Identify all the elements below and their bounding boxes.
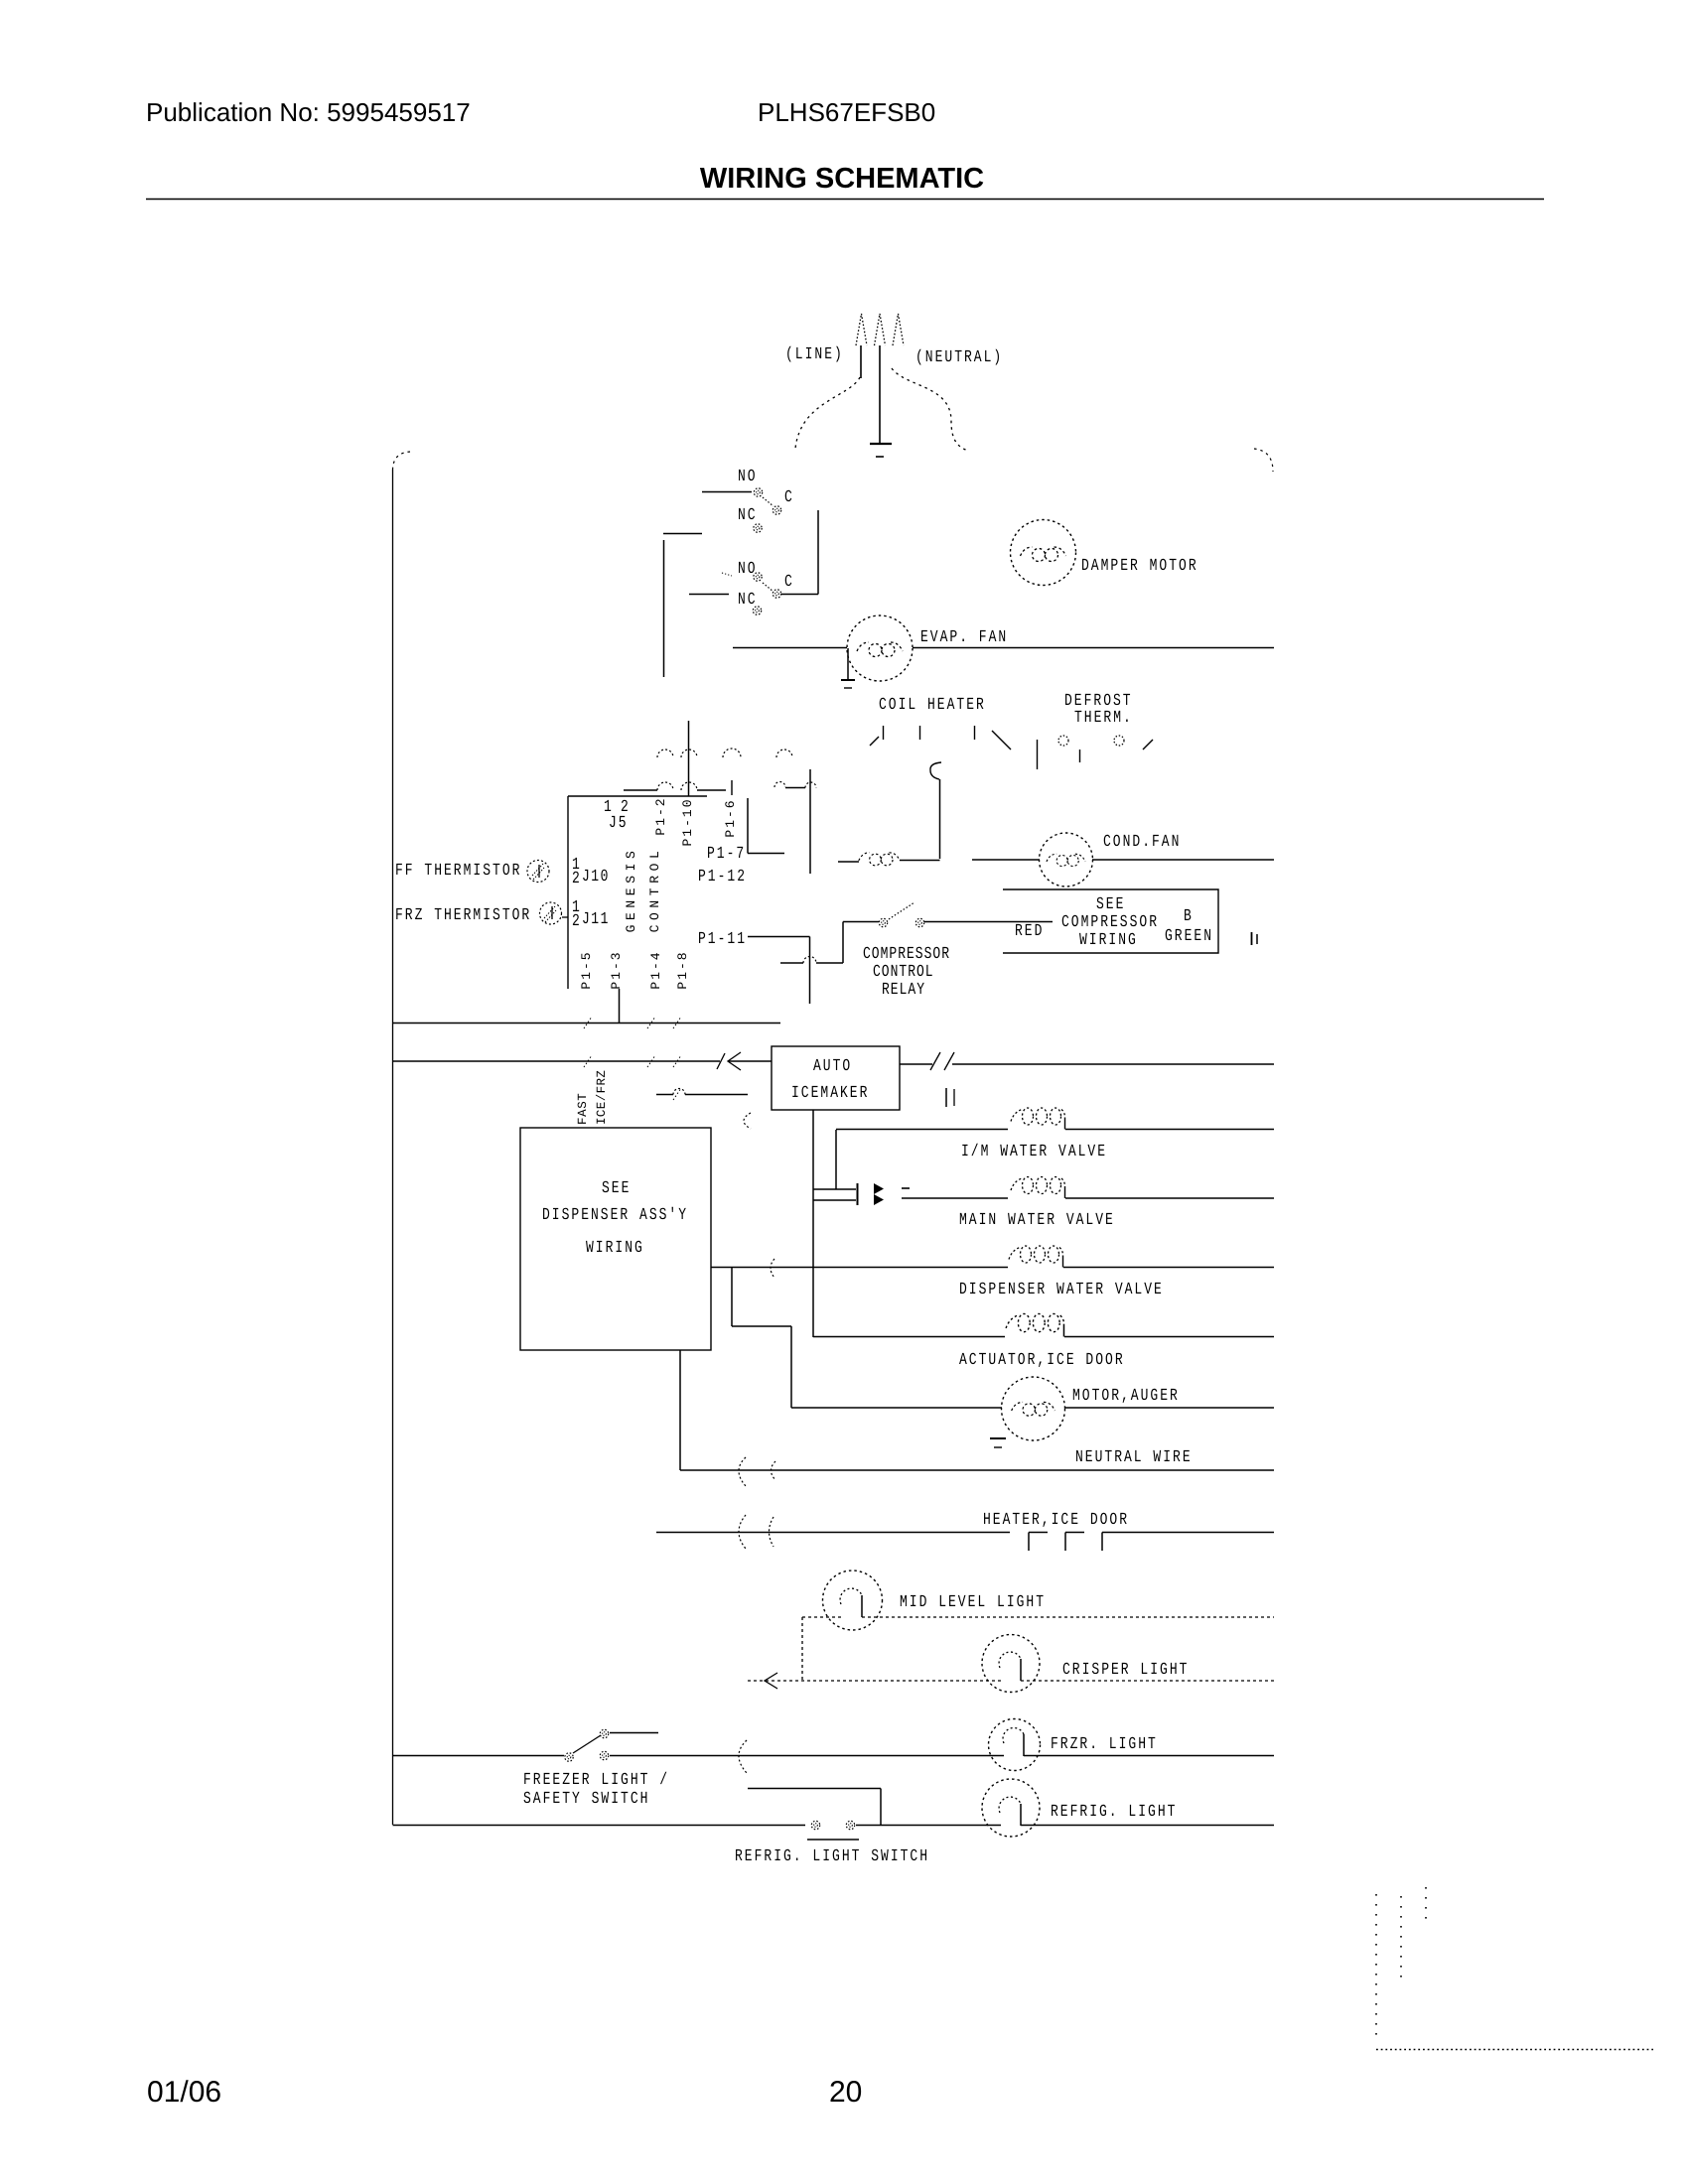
wire cond-fan row mid bbox=[900, 860, 940, 862]
wire down to genesis top bbox=[688, 721, 690, 796]
wire P1-11 vertical bbox=[809, 937, 811, 1005]
defrost therm terminal B bbox=[1114, 736, 1124, 746]
bus line A bbox=[393, 1023, 781, 1024]
arc mark frzr row bbox=[739, 1740, 747, 1773]
coil heater mark tick3 bbox=[974, 726, 976, 740]
FF thermistor body bbox=[527, 861, 549, 883]
auger motor circle bbox=[1002, 1377, 1065, 1440]
wire P1-3 drop bbox=[619, 989, 621, 1024]
coil heater mark slash1 bbox=[870, 737, 879, 746]
wire crossing mark x682 lineC bbox=[673, 1088, 681, 1100]
damper motor circle bbox=[1011, 520, 1076, 586]
relay arm (dotted) bbox=[889, 902, 914, 919]
genesis box left edge bbox=[567, 796, 569, 989]
wire mid level right (dashed) bbox=[862, 1616, 1274, 1618]
svg-text:J11: J11 bbox=[582, 909, 610, 929]
svg-text:COMPRESSOR: COMPRESSOR bbox=[863, 944, 950, 964]
title rule bbox=[146, 199, 1544, 201]
icemaker break slash1 bbox=[930, 1052, 940, 1070]
svg-text:SEE: SEE bbox=[602, 1178, 631, 1198]
defrost therm terminal A bbox=[1058, 736, 1068, 746]
board connector arc row1 #4 bbox=[776, 750, 792, 757]
diode double anode bbox=[874, 1183, 884, 1205]
FF thermistor hatch2 bbox=[533, 868, 544, 880]
FRZ thermistor lead bbox=[562, 916, 568, 918]
wire crossing mark x592 y1030 bbox=[584, 1017, 592, 1028]
evap fan ground drop bbox=[847, 648, 849, 679]
wire from NC area down bbox=[663, 540, 665, 677]
svg-text:NC: NC bbox=[738, 590, 758, 610]
wire dispenser valve row bbox=[711, 1267, 1008, 1269]
wire main valve right bbox=[1065, 1197, 1274, 1199]
break mark bar1 bbox=[1251, 932, 1253, 945]
wire ground-prong lead bbox=[879, 345, 881, 443]
switch1 C terminal bbox=[773, 506, 780, 514]
freezer light filament bbox=[1003, 1728, 1024, 1756]
wire frzr row left bbox=[393, 1755, 565, 1757]
svg-text:GENESIS: GENESIS bbox=[624, 847, 638, 933]
wire actuator row bbox=[813, 1336, 1005, 1338]
wire evap fan right bbox=[913, 647, 1274, 649]
defrost heater lead bbox=[1037, 740, 1039, 769]
wire actuator right bbox=[1064, 1336, 1274, 1338]
wire mid level left (dashed) bbox=[802, 1616, 842, 1618]
wire crisper right (dashed) bbox=[1021, 1680, 1274, 1682]
bus line B left bbox=[393, 1060, 721, 1062]
wire row2 mid bbox=[697, 789, 726, 791]
wire heater ice door row bbox=[656, 1532, 1010, 1534]
wire P1-7 stub bbox=[748, 853, 784, 855]
svg-text:ICE/FRZ: ICE/FRZ bbox=[595, 1070, 609, 1125]
ice door heater drop3 bbox=[1101, 1533, 1103, 1552]
svg-text:P1-7: P1-7 bbox=[707, 844, 746, 864]
svg-text:DISPENSER WATER VALVE: DISPENSER WATER VALVE bbox=[959, 1280, 1164, 1299]
plug prong right bbox=[893, 314, 904, 345]
svg-text:REFRIG. LIGHT: REFRIG. LIGHT bbox=[1051, 1802, 1177, 1822]
break mark bar2 bbox=[1256, 934, 1258, 944]
wire I/M valve row bbox=[836, 1129, 1008, 1131]
svg-text:SAFETY SWITCH: SAFETY SWITCH bbox=[523, 1789, 649, 1809]
cap mark bar1 bbox=[945, 1088, 947, 1107]
switch2 NO terminal bbox=[754, 573, 762, 581]
svg-text:I/M WATER VALVE: I/M WATER VALVE bbox=[961, 1142, 1107, 1161]
wire crossing mark x656 y1069 bbox=[647, 1055, 655, 1067]
defrost therm slash bbox=[1143, 740, 1153, 750]
ice door heater seg3 bbox=[1102, 1532, 1274, 1534]
relay NO terminal bbox=[915, 918, 923, 926]
svg-text:SEE: SEE bbox=[1096, 894, 1125, 914]
svg-text:AUTO: AUTO bbox=[813, 1056, 852, 1076]
wire auger row bbox=[791, 1407, 1002, 1409]
wire hop relay over P1-11 bbox=[803, 957, 816, 964]
wire relay riser bbox=[842, 922, 844, 964]
auger ground tick bbox=[994, 1446, 1002, 1448]
freezer switch arm bbox=[573, 1735, 601, 1753]
registration mark dotted column 2 bbox=[1400, 1896, 1402, 1978]
wire relay to compressor box bbox=[924, 921, 1053, 923]
wire row2 right bbox=[785, 787, 805, 789]
cabinet outline top-right corner bbox=[1254, 449, 1273, 472]
wire refrig branch vertical bbox=[880, 1789, 882, 1826]
wire switch2 C to bus bbox=[781, 594, 818, 596]
wire auger branch horizontal1 bbox=[732, 1325, 791, 1327]
wire main valve row bbox=[902, 1197, 1008, 1199]
evap fan ground tick bbox=[844, 687, 852, 689]
svg-text:P1-5: P1-5 bbox=[579, 950, 594, 989]
wire refrig row mid bbox=[856, 1825, 1001, 1827]
switch2 NC terminal bbox=[753, 607, 761, 614]
plug prong center bbox=[875, 314, 886, 345]
cond fan motor circle bbox=[1040, 833, 1093, 887]
switch2 lead dots bbox=[722, 573, 732, 576]
arc mark neutral big bbox=[739, 1457, 746, 1486]
svg-text:DAMPER MOTOR: DAMPER MOTOR bbox=[1081, 556, 1198, 576]
refrig light circle bbox=[982, 1779, 1040, 1837]
svg-text:ICEMAKER: ICEMAKER bbox=[791, 1083, 869, 1103]
wire frzr row mid bbox=[610, 1755, 1004, 1757]
icemaker break slash2 bbox=[944, 1052, 954, 1070]
FF thermistor hatch1 bbox=[532, 864, 543, 876]
svg-text:MAIN WATER VALVE: MAIN WATER VALVE bbox=[959, 1210, 1115, 1230]
svg-text:REFRIG. LIGHT SWITCH: REFRIG. LIGHT SWITCH bbox=[735, 1846, 929, 1866]
FF thermistor bar bbox=[538, 865, 540, 878]
svg-text:FF THERMISTOR: FF THERMISTOR bbox=[395, 861, 521, 881]
freezer switch C terminal bbox=[565, 1753, 573, 1761]
freezer light circle bbox=[989, 1719, 1041, 1771]
wire cond fan right bbox=[1092, 859, 1274, 861]
svg-text:20: 20 bbox=[829, 2076, 862, 2109]
wire auger branch vertical1 bbox=[731, 1268, 733, 1327]
wire relay coil left bbox=[780, 962, 803, 964]
arc mark neutral small bbox=[772, 1461, 776, 1480]
wire stub left of switch1 NC bbox=[663, 533, 702, 535]
switch1 arm (dotted) bbox=[763, 497, 774, 506]
evap fan motor circle bbox=[847, 615, 913, 681]
svg-text:(NEUTRAL): (NEUTRAL) bbox=[915, 347, 1003, 367]
switch1 NC terminal bbox=[754, 524, 762, 532]
svg-text:WIRING: WIRING bbox=[586, 1238, 644, 1258]
main water valve coil bbox=[1011, 1177, 1065, 1199]
coil heater mark tick2 bbox=[919, 726, 921, 740]
junction tick row2 bbox=[731, 780, 733, 795]
svg-text:MID LEVEL LIGHT: MID LEVEL LIGHT bbox=[900, 1592, 1046, 1612]
board connector arc row2 #1 bbox=[657, 782, 673, 790]
svg-text:FRZR. LIGHT: FRZR. LIGHT bbox=[1051, 1734, 1158, 1754]
wire refrig branch horizontal bbox=[748, 1788, 881, 1790]
svg-text:P1-10: P1-10 bbox=[680, 797, 695, 846]
svg-text:HEATER,ICE DOOR: HEATER,ICE DOOR bbox=[983, 1510, 1129, 1530]
wire into switch2 bbox=[689, 594, 729, 596]
wire icemaker right B bbox=[952, 1063, 1274, 1065]
svg-text:P1-3: P1-3 bbox=[609, 950, 624, 989]
evap fan winding bbox=[857, 642, 903, 657]
svg-text:RELAY: RELAY bbox=[882, 980, 925, 1000]
svg-text:CRISPER LIGHT: CRISPER LIGHT bbox=[1062, 1660, 1189, 1680]
wire P1-11 horizontal bbox=[748, 936, 810, 938]
wire refrig row left bbox=[393, 1825, 806, 1827]
diode minus mark bbox=[902, 1187, 910, 1189]
board connector arc row1 #2 bbox=[681, 750, 697, 757]
svg-text:Publication No: 5995459517: Publication No: 5995459517 bbox=[146, 97, 471, 127]
svg-text:J5: J5 bbox=[609, 813, 629, 833]
FRZ thermistor hatch1 bbox=[544, 906, 555, 918]
wire diode feed bottom bbox=[813, 1199, 856, 1201]
svg-text:P1-6: P1-6 bbox=[723, 798, 738, 837]
evap fan ground bar bbox=[841, 679, 855, 681]
FRZ thermistor body bbox=[540, 902, 562, 924]
svg-text:P1-8: P1-8 bbox=[675, 950, 690, 989]
arc mark heater2 bbox=[770, 1517, 774, 1547]
bus line B tail bbox=[728, 1060, 772, 1062]
wire mid-to-crisper drop (dashed) bbox=[801, 1617, 803, 1681]
wire frzr row right bbox=[1024, 1755, 1274, 1757]
switch2 arm (dotted) bbox=[763, 583, 774, 592]
wire to cond fan bbox=[972, 859, 1040, 861]
actuator ice door coil bbox=[1006, 1313, 1063, 1336]
svg-text:CONTROL: CONTROL bbox=[873, 962, 934, 982]
svg-text:ACTUATOR,ICE DOOR: ACTUATOR,ICE DOOR bbox=[959, 1350, 1125, 1370]
wire relay to common bbox=[843, 921, 879, 923]
bus line C hop bbox=[673, 1089, 685, 1095]
wire icemaker drop bbox=[812, 1110, 814, 1337]
svg-text:CONTROL: CONTROL bbox=[647, 847, 662, 933]
genesis box top edge bbox=[568, 795, 707, 797]
auger ground bar bbox=[990, 1437, 1006, 1439]
see dispenser assy wiring box bbox=[520, 1128, 711, 1350]
ground tick of plug bbox=[876, 456, 884, 458]
auto icemaker box bbox=[772, 1046, 900, 1110]
wire neutral drop bbox=[679, 1350, 681, 1470]
freezer switch NO stub bbox=[610, 1732, 658, 1734]
wire crossing mark x592 y1069 bbox=[584, 1055, 592, 1067]
refrig light filament bbox=[999, 1797, 1021, 1826]
wire neutral cord (dashed) bbox=[892, 368, 968, 451]
mid level light filament bbox=[840, 1588, 862, 1617]
svg-text:C: C bbox=[784, 572, 794, 591]
wire evap fan left bbox=[733, 647, 847, 649]
bus line C right bbox=[685, 1094, 748, 1096]
ice door heater seg1 bbox=[1029, 1532, 1048, 1534]
wire cond-fan row left bbox=[838, 861, 859, 863]
svg-text:01/06: 01/06 bbox=[147, 2076, 221, 2109]
wire diode feed top bbox=[813, 1188, 856, 1190]
registration mark dotted column 3 bbox=[1425, 1887, 1427, 1919]
svg-text:WIRING SCHEMATIC: WIRING SCHEMATIC bbox=[700, 163, 984, 195]
svg-text:P1-2: P1-2 bbox=[653, 796, 668, 835]
svg-text:PLHS67EFSB0: PLHS67EFSB0 bbox=[758, 97, 935, 127]
svg-text:THERM.: THERM. bbox=[1074, 708, 1133, 728]
dispenser water valve coil bbox=[1009, 1246, 1063, 1268]
wire row2 left bbox=[624, 789, 657, 791]
svg-text:2: 2 bbox=[572, 869, 580, 888]
board connector arc row2 #3 bbox=[774, 782, 785, 788]
wire coil heater down bbox=[939, 779, 941, 859]
auger motor winding bbox=[1012, 1402, 1055, 1416]
wire line-prong lead bbox=[860, 345, 862, 378]
coil heater winding bbox=[859, 853, 900, 866]
svg-text:EVAP. FAN: EVAP. FAN bbox=[920, 627, 1008, 647]
damper motor winding bbox=[1021, 547, 1066, 562]
FRZ thermistor hatch2 bbox=[545, 910, 556, 922]
freezer switch NO terminal bbox=[600, 1729, 608, 1737]
registration mark dotted column 1 bbox=[1375, 1894, 1377, 2035]
crisper light circle bbox=[982, 1635, 1040, 1693]
wire I/M valve right bbox=[1065, 1129, 1274, 1131]
bus line B break slash bbox=[717, 1053, 725, 1069]
ground bar of plug bbox=[870, 443, 892, 445]
wire icemaker right A bbox=[900, 1063, 932, 1065]
switch1 NO terminal bbox=[754, 488, 762, 496]
svg-text:COIL HEATER: COIL HEATER bbox=[879, 695, 986, 715]
compressor wiring box bbox=[1003, 889, 1218, 953]
plug prong left bbox=[856, 314, 867, 345]
wire refrig row right bbox=[1021, 1825, 1274, 1827]
wire crossing mark x682 y1030 bbox=[673, 1017, 681, 1028]
svg-text:WIRING: WIRING bbox=[1079, 930, 1138, 950]
svg-text:P1-4: P1-4 bbox=[648, 950, 663, 989]
switch2 C terminal bbox=[773, 590, 780, 598]
FRZ thermistor bar bbox=[551, 906, 553, 919]
refrig switch terminal R bbox=[846, 1821, 854, 1829]
svg-text:NO: NO bbox=[738, 467, 758, 486]
wire to switch1 NO bbox=[702, 491, 752, 493]
wire P1-6 drop bbox=[809, 769, 811, 874]
svg-text:2: 2 bbox=[572, 911, 580, 931]
svg-text:DISPENSER ASS'Y: DISPENSER ASS'Y bbox=[542, 1205, 688, 1225]
ice door heater drop1 bbox=[1028, 1533, 1030, 1552]
diode bar bbox=[857, 1183, 859, 1205]
wire I/M valve riser bbox=[835, 1130, 837, 1189]
board connector arc row2 #2 bbox=[681, 782, 697, 790]
svg-text:B: B bbox=[1184, 906, 1194, 926]
board connector arc row1 #3 bbox=[723, 749, 741, 757]
bus line C left bbox=[656, 1094, 673, 1096]
defrost therm tick bbox=[1079, 750, 1081, 762]
wire crossing mark x682 y1069 bbox=[673, 1055, 681, 1067]
wire relay coil right bbox=[816, 962, 843, 964]
svg-text:COMPRESSOR: COMPRESSOR bbox=[1061, 912, 1159, 932]
arc mark on dispenser row bbox=[771, 1259, 774, 1278]
wire line cord (dashed) bbox=[795, 377, 860, 449]
arc mark heater1 bbox=[739, 1515, 746, 1549]
svg-text:FRZ THERMISTOR: FRZ THERMISTOR bbox=[395, 905, 531, 925]
ice door heater seg2 bbox=[1065, 1532, 1084, 1534]
wire hook under coil heater bbox=[930, 762, 941, 779]
relay common terminal bbox=[879, 918, 887, 926]
ice door heater drop2 bbox=[1064, 1533, 1066, 1552]
wire dispenser valve right bbox=[1063, 1267, 1274, 1269]
wire auger right bbox=[1064, 1407, 1274, 1409]
arc mark below icemaker bbox=[744, 1113, 751, 1129]
mid level light circle bbox=[823, 1570, 883, 1630]
wire auger branch vertical2 bbox=[790, 1326, 792, 1408]
I/M water valve coil bbox=[1011, 1108, 1065, 1130]
wire crossing mark x656 y1030 bbox=[647, 1017, 655, 1028]
svg-text:NEUTRAL WIRE: NEUTRAL WIRE bbox=[1075, 1447, 1193, 1467]
bus line B arrowhead bbox=[728, 1052, 741, 1070]
coil heater mark slash2 bbox=[992, 731, 1011, 750]
svg-text:RED: RED bbox=[1015, 921, 1044, 941]
cabinet outline left edge bbox=[392, 470, 394, 1825]
svg-text:(LINE): (LINE) bbox=[785, 344, 844, 364]
wire neutral row bbox=[680, 1469, 1274, 1471]
coil heater mark tick1 bbox=[883, 726, 885, 740]
svg-text:COND.FAN: COND.FAN bbox=[1103, 832, 1181, 852]
freezer switch NC terminal bbox=[600, 1751, 608, 1759]
svg-text:J10: J10 bbox=[582, 867, 610, 887]
svg-text:C: C bbox=[784, 487, 794, 507]
wire hop over P1-6 drop bbox=[805, 782, 816, 787]
crisper arrowhead bbox=[765, 1673, 777, 1689]
registration mark dotted row bbox=[1376, 2049, 1653, 2051]
svg-text:MOTOR,AUGER: MOTOR,AUGER bbox=[1072, 1386, 1180, 1406]
svg-text:NC: NC bbox=[738, 505, 758, 525]
cap mark bar2 bbox=[953, 1089, 955, 1106]
refrig switch bar bbox=[807, 1839, 859, 1841]
svg-text:P1-11: P1-11 bbox=[698, 929, 747, 949]
svg-text:FAST: FAST bbox=[576, 1093, 590, 1125]
crisper light filament bbox=[999, 1652, 1021, 1681]
cond fan winding bbox=[1047, 854, 1085, 866]
cabinet outline top-left corner bbox=[393, 452, 411, 470]
refrig switch terminal L bbox=[811, 1821, 819, 1829]
svg-text:P1-12: P1-12 bbox=[698, 867, 747, 887]
wire P1-6 jog vertical bbox=[747, 798, 749, 854]
wire crisper left (dashed) bbox=[748, 1680, 1001, 1682]
board connector arc row1 #1 bbox=[657, 750, 673, 757]
wire switch C bus vertical bbox=[817, 510, 819, 595]
svg-text:FREEZER LIGHT /: FREEZER LIGHT / bbox=[523, 1770, 669, 1790]
svg-text:GREEN: GREEN bbox=[1165, 926, 1213, 946]
